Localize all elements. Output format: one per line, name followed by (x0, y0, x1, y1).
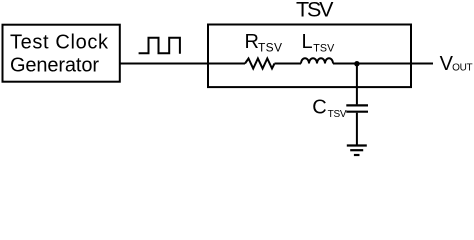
capacitor C_TSV (346, 105, 368, 111)
label V_OUT (440, 53, 473, 75)
svg-text:TSV: TSV (258, 41, 282, 55)
ground (347, 146, 367, 156)
label: Test Clock Generator (10, 32, 109, 77)
wire: resistor to inductor (275, 63, 302, 65)
svg-text:TSV: TSV (328, 109, 347, 120)
wire: generator output to resistor (120, 63, 245, 65)
svg-text:Test Clock: Test Clock (10, 32, 109, 54)
TSV box outline (208, 25, 411, 88)
inductor L_TSV (301, 58, 333, 63)
svg-text:TSV: TSV (313, 43, 335, 55)
label C_TSV (312, 97, 347, 120)
wire: junction down to capacitor (356, 64, 358, 105)
svg-text:TSV: TSV (296, 0, 334, 21)
label L_TSV (302, 31, 336, 55)
wire: capacitor to ground (356, 113, 358, 146)
svg-text:Generator: Generator (10, 55, 99, 77)
svg-text:R: R (245, 31, 259, 53)
resistor R_TSV (245, 59, 275, 69)
node: output junction (354, 61, 359, 66)
Test Clock Generator block U1 (3, 25, 120, 82)
svg-text:C: C (312, 97, 326, 119)
wire: inductor to output (333, 63, 433, 65)
clock waveform symbol (139, 38, 180, 54)
svg-text:OUT: OUT (452, 62, 473, 73)
label R_TSV (245, 31, 283, 55)
svg-text:L: L (302, 31, 313, 53)
